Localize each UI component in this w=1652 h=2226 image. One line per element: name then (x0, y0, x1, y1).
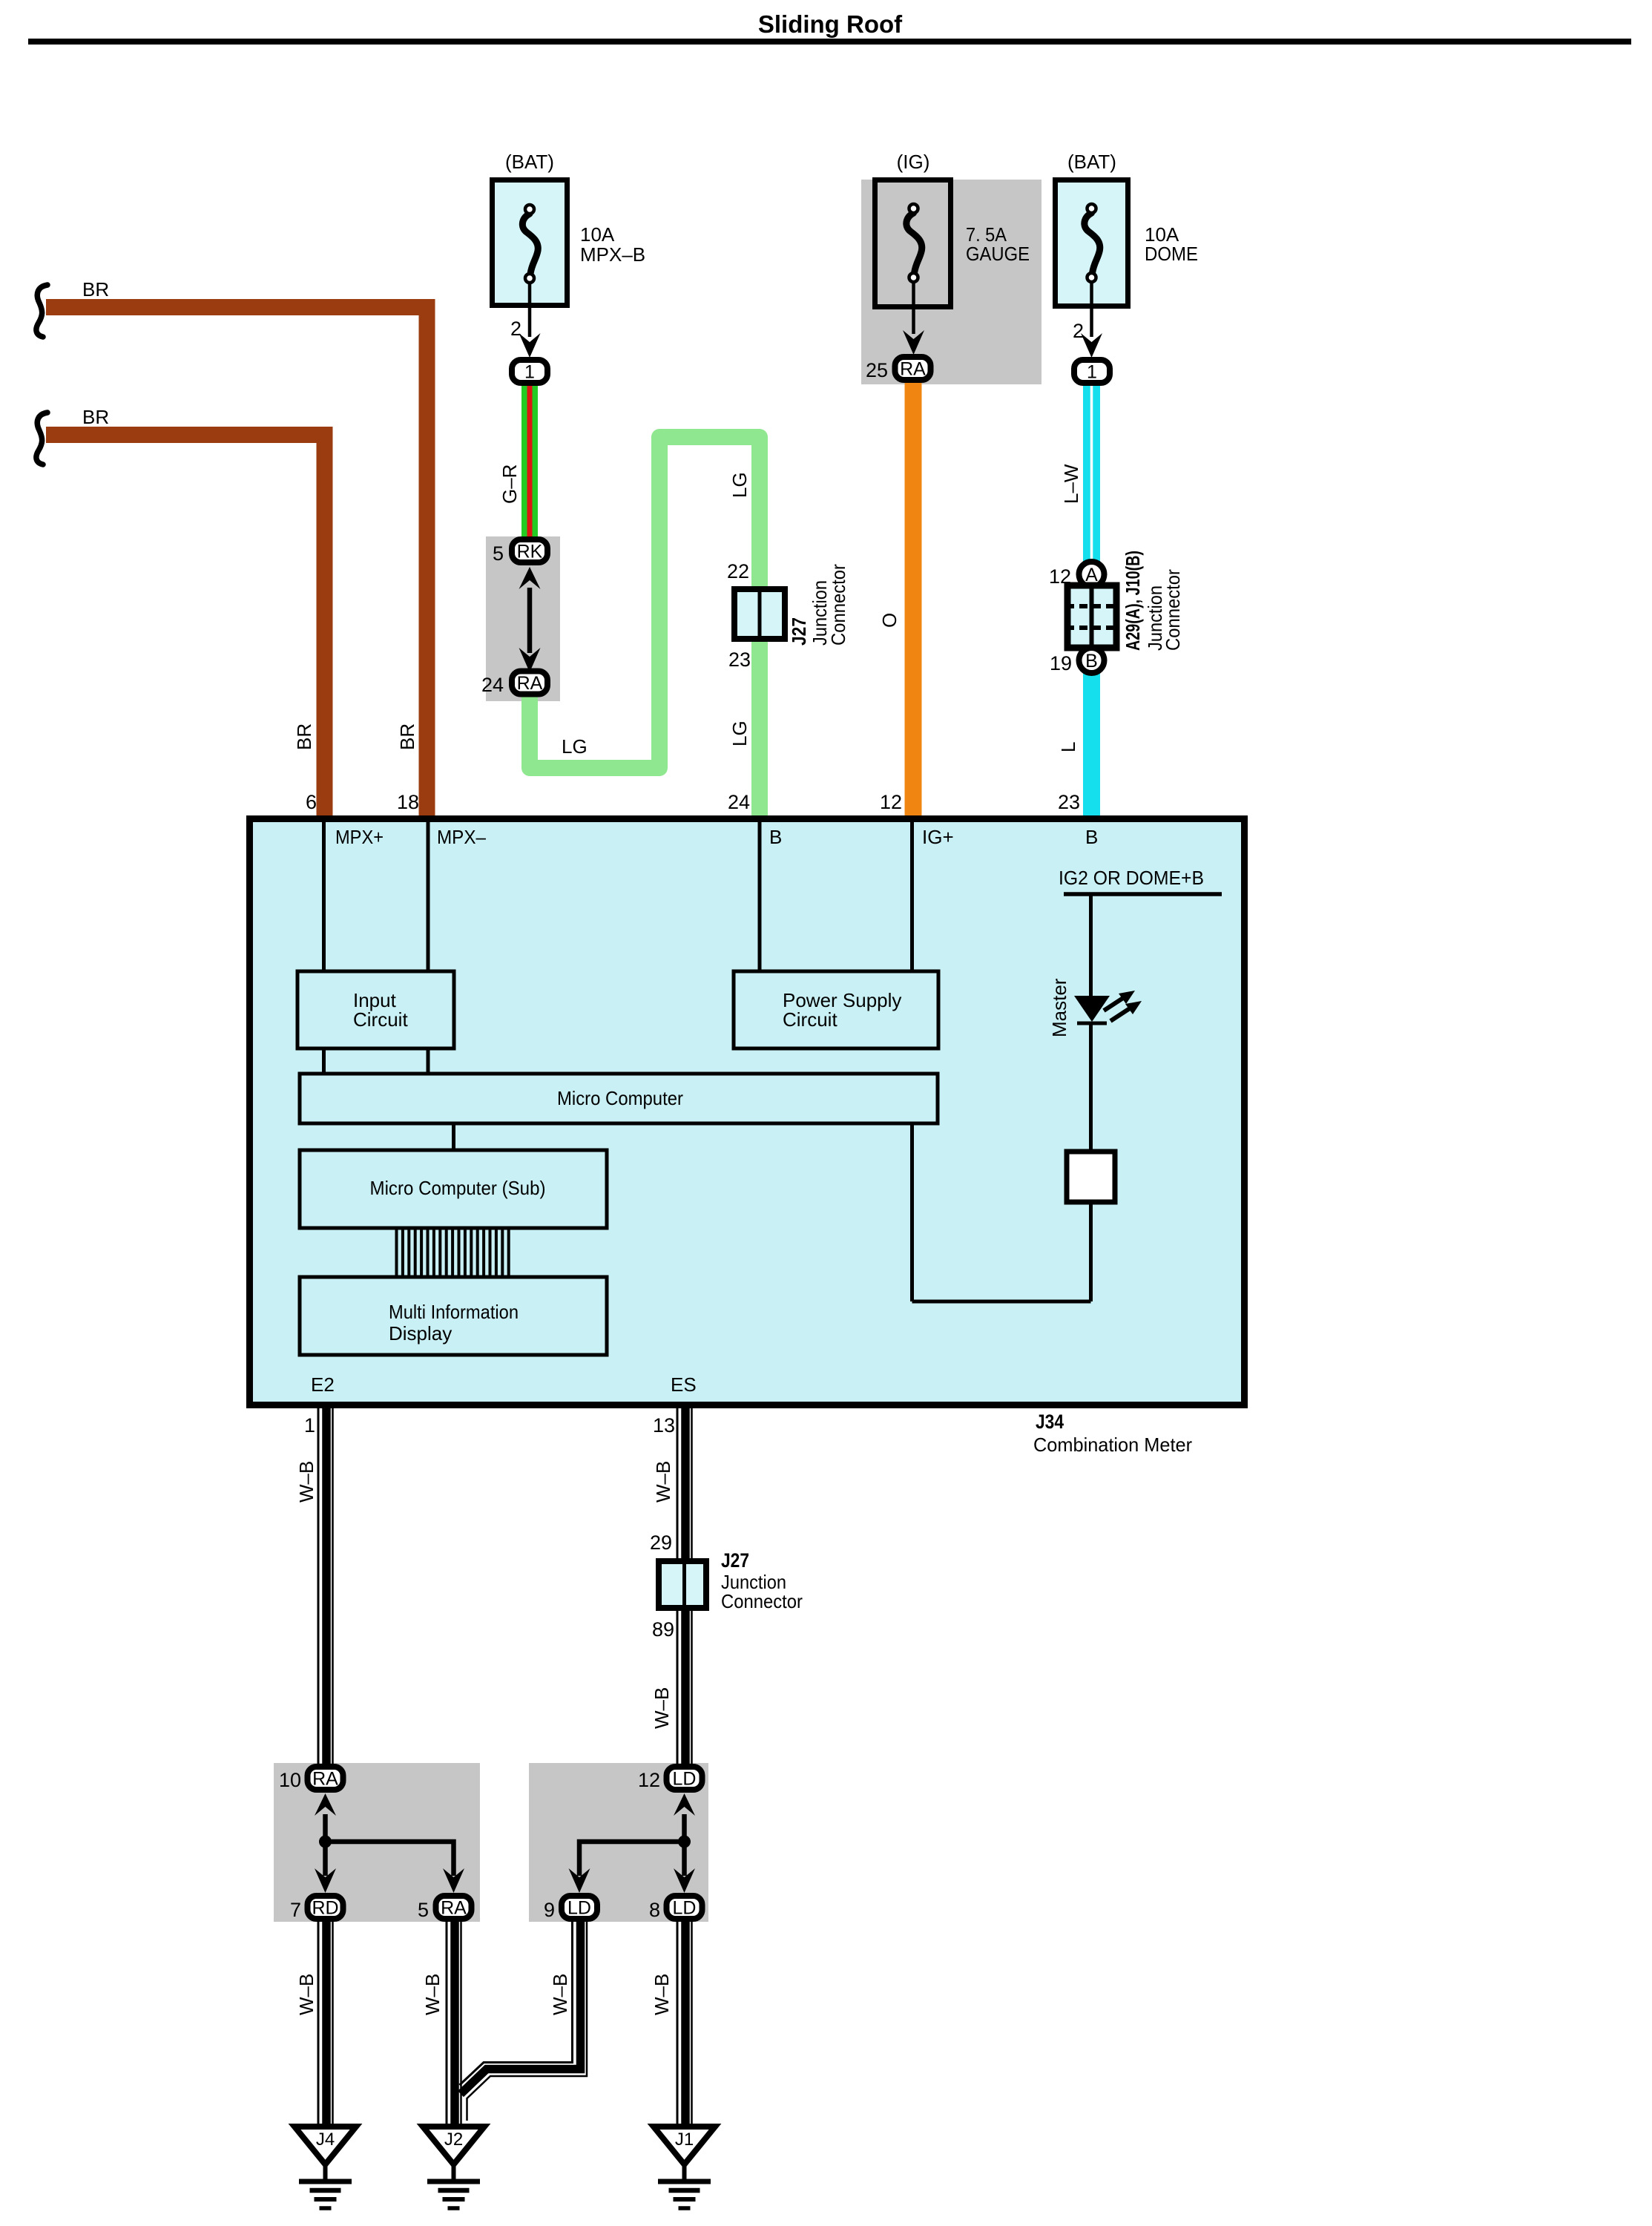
svg-text:Micro Computer: Micro Computer (557, 1087, 683, 1109)
svg-text:(IG): (IG) (897, 151, 930, 173)
svg-text:Combination Meter: Combination Meter (1033, 1434, 1192, 1456)
svg-text:J2: J2 (444, 2130, 463, 2150)
svg-text:LD: LD (673, 1898, 697, 1919)
svg-text:W–B: W–B (295, 1461, 317, 1503)
svg-text:B: B (769, 826, 782, 848)
svg-text:LD: LD (567, 1898, 591, 1919)
svg-text:Circuit: Circuit (783, 1008, 837, 1031)
svg-text:GAUGE: GAUGE (966, 243, 1030, 265)
svg-text:25: 25 (866, 359, 888, 381)
svg-text:MPX–B: MPX–B (580, 243, 645, 266)
svg-text:(BAT): (BAT) (505, 151, 554, 173)
svg-text:RK: RK (517, 542, 543, 562)
svg-text:B: B (1085, 826, 1098, 848)
svg-text:IG2 OR DOME+B: IG2 OR DOME+B (1059, 867, 1204, 889)
svg-text:1: 1 (524, 362, 535, 383)
svg-text:RA: RA (441, 1898, 467, 1919)
svg-text:IG+: IG+ (922, 826, 954, 848)
svg-text:Master: Master (1048, 978, 1070, 1037)
svg-text:Micro Computer (Sub): Micro Computer (Sub) (370, 1177, 546, 1199)
svg-text:10: 10 (279, 1769, 301, 1791)
svg-text:1: 1 (304, 1414, 315, 1437)
svg-text:6: 6 (306, 791, 317, 813)
svg-text:Circuit: Circuit (353, 1008, 408, 1031)
svg-text:W–B: W–B (549, 1974, 571, 2015)
svg-text:24: 24 (728, 791, 750, 813)
svg-text:1: 1 (1087, 362, 1097, 383)
svg-text:8: 8 (649, 1899, 660, 1921)
svg-text:5: 5 (493, 542, 504, 565)
svg-text:BR: BR (82, 278, 109, 301)
svg-text:BR: BR (82, 406, 109, 428)
svg-text:(BAT): (BAT) (1067, 151, 1116, 173)
svg-text:O: O (878, 613, 901, 628)
svg-text:Connector: Connector (1162, 569, 1184, 651)
svg-text:J27: J27 (788, 617, 810, 646)
svg-text:18: 18 (397, 791, 419, 813)
svg-text:RD: RD (312, 1898, 338, 1919)
svg-text:DOME: DOME (1145, 243, 1198, 265)
svg-text:Connector: Connector (721, 1590, 803, 1612)
svg-text:MPX–: MPX– (437, 826, 486, 848)
svg-text:L: L (1057, 742, 1079, 752)
svg-text:LG: LG (728, 720, 751, 746)
svg-text:W–B: W–B (421, 1974, 444, 2015)
svg-text:7: 7 (290, 1899, 301, 1921)
svg-text:12: 12 (880, 791, 902, 813)
svg-text:W–B: W–B (651, 1974, 673, 2015)
svg-text:13: 13 (653, 1414, 675, 1437)
svg-text:W–B: W–B (295, 1974, 317, 2015)
svg-text:Sliding Roof: Sliding Roof (758, 10, 903, 38)
svg-text:LG: LG (562, 735, 588, 758)
svg-text:19: 19 (1050, 652, 1072, 674)
svg-text:89: 89 (652, 1618, 674, 1641)
svg-text:Display: Display (389, 1322, 452, 1345)
svg-text:J1: J1 (675, 2130, 694, 2150)
svg-text:Multi Information: Multi Information (389, 1301, 519, 1323)
svg-text:22: 22 (727, 560, 749, 582)
svg-text:B: B (1085, 651, 1098, 672)
svg-text:J4: J4 (316, 2130, 335, 2150)
svg-text:W–B: W–B (652, 1461, 674, 1503)
svg-text:L–W: L–W (1060, 464, 1082, 504)
svg-text:RA: RA (312, 1769, 338, 1790)
svg-text:2: 2 (510, 318, 521, 340)
svg-text:A29(A), J10(B): A29(A), J10(B) (1122, 551, 1144, 651)
svg-text:RA: RA (517, 673, 543, 694)
svg-text:10A: 10A (580, 223, 615, 246)
svg-text:LD: LD (673, 1769, 697, 1790)
svg-text:LG: LG (728, 472, 751, 498)
svg-text:23: 23 (728, 649, 751, 671)
svg-text:RA: RA (900, 359, 926, 380)
svg-text:W–B: W–B (651, 1687, 673, 1729)
svg-text:29: 29 (650, 1531, 672, 1554)
svg-text:J34: J34 (1036, 1411, 1064, 1433)
svg-text:Connector: Connector (827, 564, 849, 646)
svg-text:G–R: G–R (498, 464, 521, 504)
svg-text:E2: E2 (311, 1373, 335, 1396)
svg-text:2: 2 (1073, 320, 1084, 342)
svg-text:BR: BR (293, 723, 315, 750)
svg-text:J27: J27 (721, 1549, 749, 1572)
svg-text:ES: ES (671, 1373, 697, 1396)
svg-text:9: 9 (544, 1899, 555, 1921)
svg-text:23: 23 (1058, 791, 1080, 813)
svg-text:12: 12 (638, 1769, 660, 1791)
svg-text:24: 24 (481, 674, 504, 696)
svg-text:5: 5 (418, 1899, 429, 1921)
svg-text:BR: BR (396, 723, 418, 750)
svg-text:MPX+: MPX+ (335, 826, 384, 848)
